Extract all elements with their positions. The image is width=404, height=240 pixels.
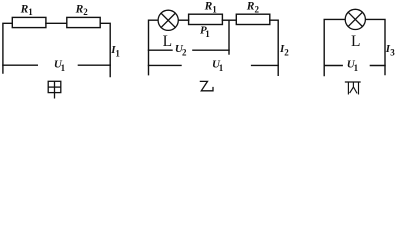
label P1 (yi) [200, 25, 210, 40]
wire: jia between R1 and R2 [46, 22, 67, 24]
svg-text:2: 2 [83, 7, 88, 17]
lamp L (bing) [345, 9, 365, 29]
svg-text:R: R [75, 4, 84, 16]
label yi (Chinese) [200, 81, 213, 90]
svg-text:1: 1 [354, 63, 359, 73]
label I2 (yi) [279, 43, 289, 58]
svg-text:R: R [204, 0, 213, 12]
wire: bing left rail and top stub to lamp [324, 19, 345, 75]
label U1 (bing) [347, 59, 359, 73]
wire: yi left rail and top stub to lamp [149, 20, 158, 74]
wire: yi middle tap rail [228, 20, 230, 54]
svg-text:L: L [351, 33, 360, 50]
wire: yi U2 bracket right segment [193, 49, 229, 51]
wire: yi U2 bracket left segment [149, 49, 173, 51]
svg-text:R: R [246, 0, 255, 12]
svg-text:2: 2 [284, 47, 289, 57]
resistor R2 (yi) [236, 14, 269, 24]
svg-text:2: 2 [182, 47, 187, 57]
svg-text:2: 2 [255, 5, 260, 15]
resistor R1 (yi) [189, 14, 223, 24]
label R1 (jia) [20, 4, 34, 18]
wire: bing bottom-right segment [370, 65, 385, 67]
resistor R1 (jia) [12, 17, 46, 27]
svg-text:1: 1 [219, 63, 224, 73]
label R1 (yi) [204, 0, 218, 14]
svg-text:1: 1 [205, 29, 210, 39]
svg-text:L: L [163, 33, 172, 50]
label U1 (yi) [212, 59, 224, 73]
resistor R2 (jia) [67, 17, 100, 27]
label I3 (bing) [385, 43, 395, 58]
wire: yi stub R1 to R2 [222, 19, 236, 21]
wire: jia bottom-left segment [3, 64, 37, 66]
wire: yi bottom-left segment [149, 64, 182, 66]
label R2 (yi) [246, 0, 260, 14]
wire: jia top-right segment and right rail [100, 23, 110, 76]
svg-text:R: R [20, 4, 29, 16]
wire: yi stub lamp to R1 [179, 19, 189, 21]
label U2 (yi) [175, 43, 187, 58]
wire: yi bottom-right segment [252, 64, 279, 66]
svg-text:1: 1 [28, 7, 33, 17]
svg-text:1: 1 [115, 48, 120, 58]
svg-text:1: 1 [212, 5, 217, 15]
label bing (Chinese) [345, 82, 360, 94]
wire: yi top-right segment and right rail [270, 20, 278, 75]
label I1 (jia) [110, 44, 120, 58]
lamp L (yi) [158, 10, 178, 30]
wire: jia bottom-right segment [78, 64, 110, 66]
label R2 (jia) [75, 4, 89, 18]
svg-text:1: 1 [61, 63, 66, 73]
wire: bing top stub and right rail [366, 19, 385, 74]
wire: jia left rail and top-left segment [3, 23, 12, 73]
svg-text:3: 3 [390, 47, 395, 57]
label U1 (jia) [54, 59, 66, 73]
wire: bing bottom-left segment [324, 65, 342, 67]
label jia (Chinese) [48, 81, 61, 98]
